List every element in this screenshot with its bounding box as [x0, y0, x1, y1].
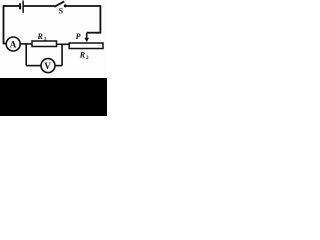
wire switch to top-right corner — [66, 5, 101, 7]
rheostat slider arrow — [86, 33, 88, 39]
wire voltmeter branch right vertical — [61, 44, 63, 66]
black censor bar bottom — [0, 78, 107, 116]
svg-text:2: 2 — [86, 55, 89, 61]
wire ammeter to R1 — [20, 43, 32, 45]
wire voltmeter bottom right — [55, 65, 62, 67]
wire right vertical — [99, 5, 101, 33]
wire voltmeter bottom left — [26, 65, 41, 67]
svg-text:1: 1 — [44, 36, 47, 42]
wire rheostat to R1 — [57, 43, 70, 45]
switch S blade — [54, 1, 64, 6]
node junction left of voltmeter branch — [25, 44, 27, 66]
svg-text:R: R — [79, 50, 86, 59]
switch S contact dot — [64, 4, 67, 7]
wire left vertical — [3, 5, 5, 44]
battery cell (positive long thin plate) — [22, 1, 24, 13]
svg-text:S: S — [59, 6, 64, 15]
resistor R1 body — [32, 41, 57, 47]
svg-text:A: A — [10, 39, 17, 49]
wire top-left horizontal — [4, 5, 20, 7]
voltmeter V — [41, 59, 55, 73]
wire to slider — [87, 32, 102, 34]
wire left into ammeter — [4, 43, 7, 45]
svg-text:V: V — [44, 61, 51, 71]
ammeter A — [6, 37, 20, 51]
battery cell (negative short thick plate) — [19, 3, 21, 9]
rheostat R2 body — [69, 43, 103, 49]
svg-text:R: R — [37, 32, 44, 41]
svg-text:P: P — [76, 32, 81, 41]
wire battery to switch — [24, 5, 55, 7]
